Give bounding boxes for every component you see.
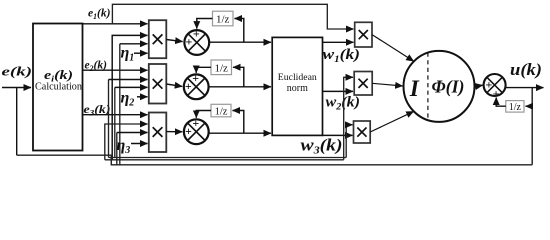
- svg-text:Φ(I): Φ(I): [432, 77, 465, 98]
- wire e_2 bottom feedback riser into box2b input1: [344, 77, 353, 160]
- svg-text:u(k): u(k): [510, 60, 542, 79]
- multiplier box X2b: [354, 72, 372, 96]
- delay block 1/z row3: [211, 104, 231, 117]
- wire box2 input3 line: [115, 86, 148, 88]
- wire u feedback riser: [531, 88, 533, 165]
- wire w2 feedback bottom line: [105, 159, 344, 161]
- delay block 1/z row1: [213, 11, 234, 26]
- wire S1 feedback riser into 1/z1: [235, 19, 244, 43]
- wire e_2(k) line: [83, 69, 148, 71]
- wire eta_2 line: [137, 96, 148, 98]
- wire e_3(k) line: [83, 114, 148, 116]
- wire X3b output diagonal into Phi circle: [370, 111, 414, 132]
- wire e_3 bottom feedback riser into box3b input1: [346, 125, 352, 158]
- wire 1/z3 output into S3 top: [196, 111, 211, 118]
- svg-text:w1(k): w1(k): [323, 47, 361, 65]
- svg-text:+: +: [192, 116, 199, 130]
- summing junction S4: [484, 74, 506, 100]
- svg-text:w3(k): w3(k): [301, 135, 343, 156]
- wire Phi circle output: [475, 85, 483, 86]
- multiplier box X3: [149, 113, 167, 153]
- svg-text:w2(k): w2(k): [326, 94, 361, 112]
- svg-text:Calculation: Calculation: [35, 82, 82, 93]
- delay block 1/z row4: [506, 101, 524, 113]
- summing junction S2: [184, 71, 209, 99]
- wire box2 output: [166, 84, 182, 86]
- svg-text:1/z: 1/z: [214, 62, 228, 74]
- wire riser box2 input2: [108, 80, 110, 158]
- svg-text:1/z: 1/z: [215, 106, 228, 117]
- wire 1/z2 output into S2 top: [196, 67, 211, 73]
- wire e(k) input arrow: [2, 87, 31, 89]
- summing junction S1: [184, 27, 209, 55]
- summing junction S3: [184, 116, 209, 144]
- multiplier box X2: [149, 64, 167, 104]
- wire S3 output to norm: [209, 132, 271, 134]
- wire e_1(k) line: [83, 23, 148, 25]
- svg-text:+: +: [485, 77, 492, 91]
- block U2 Euclidean norm: [272, 37, 322, 135]
- wire X2b output into Phi circle: [372, 83, 402, 86]
- wire box3 output: [166, 131, 182, 133]
- wire riser box3 input3: [116, 133, 118, 165]
- svg-text:+: +: [185, 124, 192, 138]
- wire box1 input2 line: [112, 35, 147, 159]
- wire box3 input3 line: [117, 132, 148, 134]
- wire riser box1 input3 to u feedback: [119, 44, 121, 165]
- svg-text:e(k): e(k): [2, 65, 33, 79]
- svg-text:e3(k): e3(k): [84, 102, 111, 118]
- delay block 1/z row2: [211, 60, 232, 75]
- svg-text:+: +: [192, 71, 199, 85]
- wire box1 input3 line: [120, 43, 148, 45]
- svg-text:+: +: [193, 27, 200, 41]
- svg-text:η1: η1: [121, 45, 135, 64]
- wire w_2(k) line: [323, 90, 354, 92]
- wire S1 output to norm: [209, 41, 271, 43]
- svg-text:+: +: [185, 79, 192, 93]
- wire box1 output: [166, 40, 182, 42]
- svg-text:e2(k): e2(k): [85, 57, 108, 73]
- svg-text:1/z: 1/z: [216, 14, 230, 26]
- wire X1b output diagonal into Phi circle: [372, 35, 414, 62]
- wire 1/z4 output into S4 bottom: [496, 98, 506, 107]
- wire 1/z1 output into S1 top: [197, 19, 213, 29]
- svg-text:Euclidean: Euclidean: [278, 73, 317, 83]
- wire w_1(k) line: [323, 41, 354, 43]
- wire riser box2 input3: [114, 87, 116, 157]
- multiplier box X1: [149, 20, 167, 58]
- svg-text:η3: η3: [117, 137, 131, 156]
- svg-text:I: I: [409, 76, 420, 101]
- wire S2 feedback riser into 1/z2: [233, 67, 244, 87]
- wire S2 output to norm: [209, 86, 271, 88]
- wire eta_1 line: [134, 52, 148, 54]
- op block Phi(I) circle: [404, 51, 475, 122]
- svg-text:e1(k): e1(k): [88, 6, 111, 22]
- wire box2 input2 line: [109, 79, 148, 81]
- svg-text:1/z: 1/z: [509, 102, 522, 113]
- wire e_1 branch riser to top bus: [112, 4, 353, 29]
- wire box3 input2 line from w2 bus: [105, 124, 148, 160]
- multiplier box X1b: [355, 22, 372, 47]
- wire eta_3 line: [131, 143, 148, 145]
- svg-text:η2: η2: [121, 90, 135, 109]
- wire riser into 1/z4: [526, 105, 533, 107]
- svg-text:norm: norm: [287, 83, 308, 94]
- wire u global feedback bottom: [17, 155, 533, 165]
- wire S3 feedback riser into 1/z3: [233, 111, 244, 134]
- wire w3 feedback bottom line: [109, 157, 347, 159]
- multiplier box X3b: [354, 121, 371, 143]
- wire w_3(k) line: [323, 134, 353, 136]
- wire outer feedback vertical left: [16, 88, 18, 156]
- wire u(k) output: [506, 87, 544, 89]
- svg-text:+: +: [185, 35, 192, 49]
- block U0 e_i(k) Calculation: [33, 24, 83, 151]
